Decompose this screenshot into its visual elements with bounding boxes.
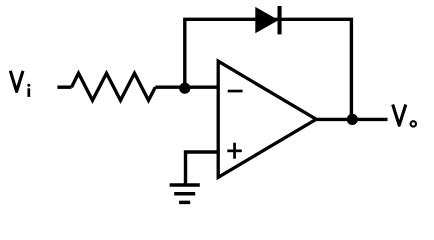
plus sign (non-inverting input) (227, 143, 242, 159)
label Vo (393, 105, 416, 127)
node A (inverting input junction) (179, 83, 190, 94)
wire non-inverting input to ground (186, 152, 220, 185)
diode D1 (255, 6, 281, 34)
label Vi (10, 71, 30, 97)
resistor R1 (72, 73, 156, 100)
wire input lead (57, 85, 71, 88)
op-amp U1 (218, 61, 316, 177)
wire resistor to inverting input (155, 85, 219, 88)
wire output (315, 118, 388, 121)
minus sign (inverting input) (228, 90, 243, 93)
ground (170, 185, 200, 202)
node B (output junction) (347, 114, 358, 125)
wire feedback loop (185, 19, 352, 119)
